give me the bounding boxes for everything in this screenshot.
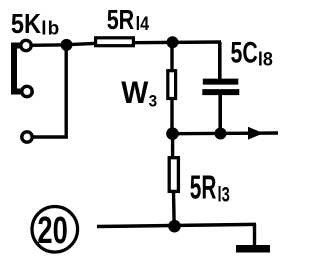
label W3 [121,76,157,111]
wire: node B to capacitor top [218,42,222,80]
svg-text:W: W [121,76,149,111]
resistor W3 [168,71,176,99]
svg-text:l8: l8 [258,48,273,70]
wire: node C down to 5R13 [171,134,174,157]
label 5K1b [11,9,61,39]
switch K1b contact middle [22,86,32,96]
wire: bottom wire down to ground [253,224,256,246]
sheet marker circle 20 [32,207,78,253]
wire: 5R13 to node E [172,191,176,227]
wire: output line with arrow [173,131,279,135]
wire: 5R14 to node B [135,40,222,44]
svg-text:5C: 5C [231,35,258,70]
svg-text:l4: l4 [136,13,150,35]
wire: capacitor bottom to node D [218,95,222,134]
capacitor 5C18 bottom plate [202,89,239,95]
label 5C18 [231,35,273,70]
node D junction [215,128,227,140]
svg-text:20: 20 [37,210,67,252]
switch K1b contact top [21,40,31,50]
wire: node A down-left to bottom contact [33,45,66,137]
node C junction [166,127,179,140]
arrowhead [248,127,264,140]
node B junction [167,36,179,48]
node E junction [168,220,181,233]
svg-text:5R: 5R [190,169,217,206]
wire: W3 to node C [170,100,173,135]
svg-text:3: 3 [149,92,158,111]
switch K1b contact bottom [22,132,32,142]
bottom wire [97,224,256,226]
wire: node A to resistor 5R14 [67,43,96,44]
switch K1b blade [14,46,21,92]
svg-text:l3: l3 [218,183,230,206]
wire: top contact to node A [31,43,68,47]
wire: node B down to W3 resistor [170,42,173,70]
capacitor 5C18 top plate [203,79,239,85]
resistor 5R13 [169,158,178,192]
resistor 5R14 [96,38,134,46]
svg-text:5K: 5K [11,9,41,39]
label 5R13 [190,169,230,206]
ground [236,245,270,253]
node A junction [61,39,73,51]
label 5R14 [107,4,150,35]
svg-text:lb: lb [41,18,60,39]
svg-text:5R: 5R [107,4,135,35]
